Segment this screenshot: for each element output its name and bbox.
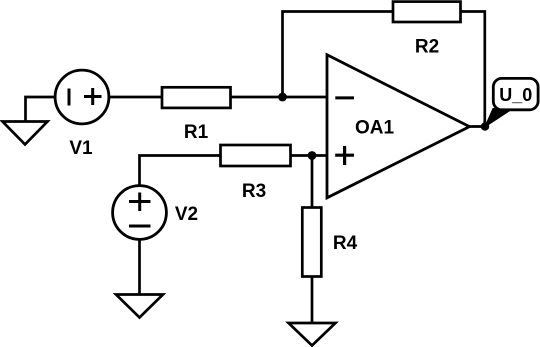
- output label U_0 callout: [485, 78, 538, 127]
- wire V1 to R1: [108, 96, 162, 99]
- wire node to R4: [311, 156, 314, 208]
- svg-text:V1: V1: [69, 138, 93, 159]
- op-amp non-inverting input marker (+): [335, 146, 354, 165]
- op-amp inverting input marker (-): [335, 96, 354, 99]
- resistor R4: [302, 208, 321, 277]
- wire V1 left lead to ground: [26, 97, 55, 121]
- svg-text:U_0: U_0: [499, 85, 532, 105]
- svg-text:R1: R1: [184, 122, 209, 143]
- wire feedback: node up and across to R2: [283, 12, 394, 98]
- svg-text:R2: R2: [415, 37, 439, 58]
- node: non-inverting input junction: [308, 151, 317, 160]
- resistor R3: [221, 145, 291, 166]
- wire op-amp output to node: [469, 125, 485, 128]
- resistor R1: [162, 87, 231, 108]
- svg-text:R3: R3: [242, 181, 266, 202]
- ground GND3 (R4): [289, 323, 336, 346]
- resistor R2: [393, 2, 461, 22]
- wire R4 to ground: [311, 277, 314, 323]
- ground GND1 (V1): [3, 122, 48, 145]
- wire V2 to ground: [138, 239, 141, 294]
- voltage source V1: [55, 70, 109, 124]
- output node: [481, 122, 489, 130]
- op-amp OA1: [327, 55, 470, 198]
- wire R2 to output: [461, 12, 485, 127]
- wire V2 to R3: [140, 156, 221, 187]
- svg-text:OA1: OA1: [355, 118, 395, 139]
- ground GND2 (V2): [116, 295, 163, 318]
- wire R3 to non-inverting input: [291, 154, 328, 157]
- svg-text:R4: R4: [333, 233, 358, 254]
- voltage source V2: [113, 186, 167, 240]
- svg-text:V2: V2: [175, 204, 198, 225]
- wire R1 to op-amp inverting input: [231, 96, 328, 99]
- node: inverting input junction: [278, 93, 287, 102]
